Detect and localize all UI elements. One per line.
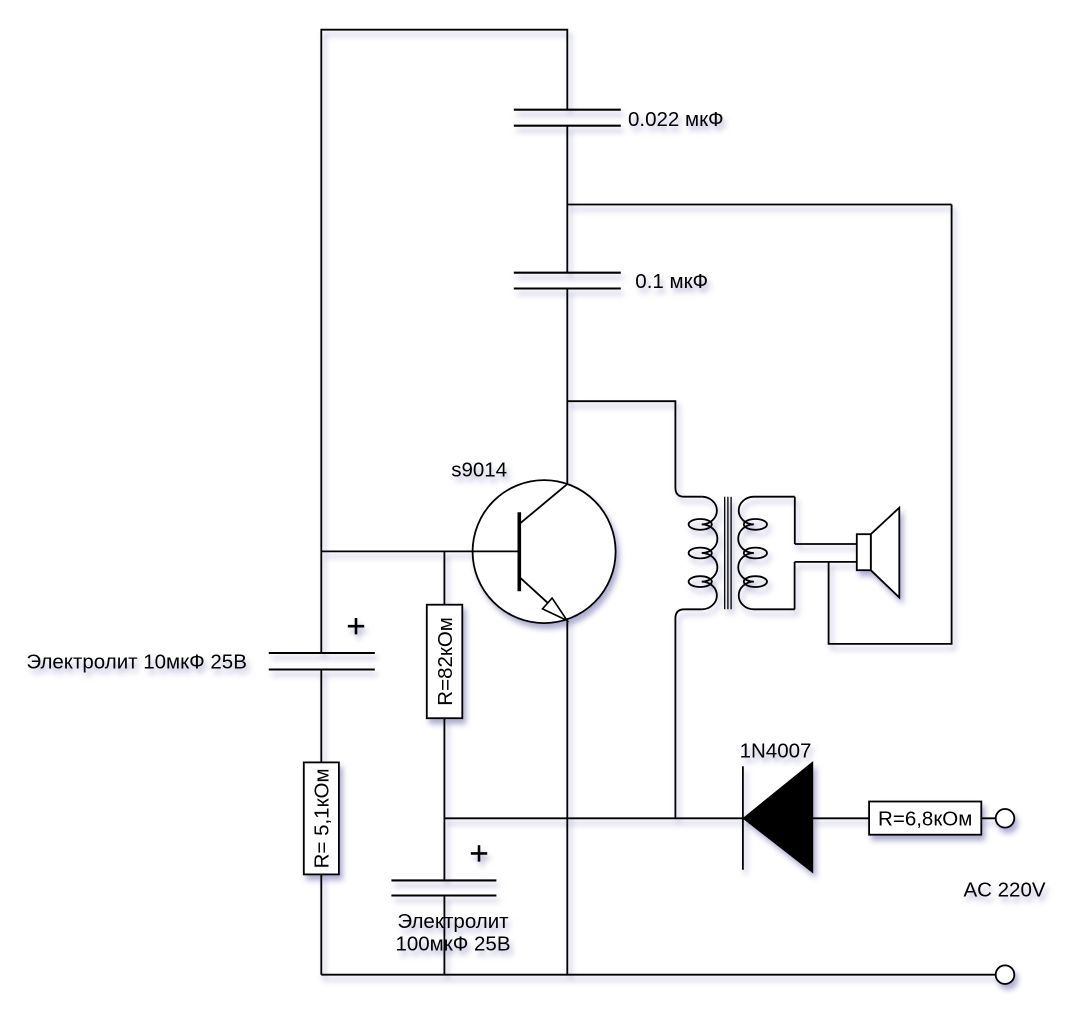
svg-text:AC 220V: AC 220V — [964, 879, 1046, 902]
svg-text:s9014: s9014 — [451, 459, 507, 482]
svg-text:100мкФ 25В: 100мкФ 25В — [395, 933, 510, 956]
svg-text:Электролит 10мкФ 25В: Электролит 10мкФ 25В — [26, 651, 246, 674]
svg-text:R=82кОм: R=82кОм — [434, 617, 457, 706]
svg-text:1N4007: 1N4007 — [740, 740, 812, 763]
svg-text:R= 5,1кОм: R= 5,1кОм — [311, 768, 334, 868]
svg-text:Электролит: Электролит — [397, 910, 509, 933]
svg-text:0.1 мкФ: 0.1 мкФ — [635, 270, 708, 293]
svg-text:0.022 мкФ: 0.022 мкФ — [628, 108, 724, 131]
svg-text:R=6,8кОм: R=6,8кОм — [878, 807, 972, 830]
